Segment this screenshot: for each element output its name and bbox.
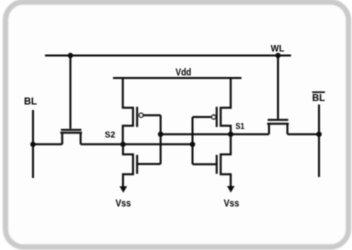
svg-text:S1: S1 (236, 121, 245, 131)
svg-text:Vss: Vss (224, 198, 240, 209)
svg-text:Vdd: Vdd (176, 68, 192, 79)
svg-text:WL: WL (271, 43, 285, 53)
svg-text:Vss: Vss (115, 198, 131, 209)
svg-text:BL: BL (24, 96, 37, 107)
svg-text:BL: BL (312, 93, 325, 104)
svg-text:S2: S2 (105, 130, 116, 140)
